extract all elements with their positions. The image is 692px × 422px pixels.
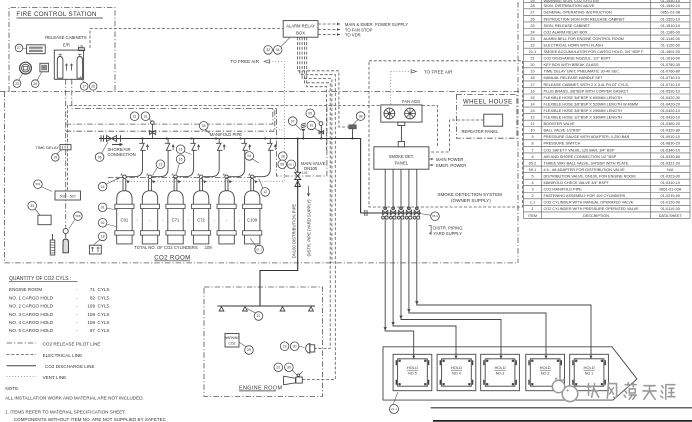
svg-text:TOTAL NO. OF CO2 CYLINDERS: TOTAL NO. OF CO2 CYLINDERS :109 xyxy=(134,245,212,250)
svg-text:N/A: N/A xyxy=(667,168,674,172)
svg-text:CO2 MANIFOLD PIPE: CO2 MANIFOLD PIPE xyxy=(544,188,583,192)
svg-text:33: 33 xyxy=(30,204,34,208)
svg-text:C71: C71 xyxy=(172,217,180,222)
svg-text:01-0120-00: 01-0120-00 xyxy=(661,201,680,205)
svg-text:MANUAL RELEASE HANDLE SET: MANUAL RELEASE HANDLE SET xyxy=(544,76,604,80)
svg-text:TO FREE AIR: TO FREE AIR xyxy=(230,59,259,64)
svg-text:CO2 RELEASE PILOT LINE: CO2 RELEASE PILOT LINE xyxy=(43,341,101,346)
svg-text:DISTR. PIPING: DISTR. PIPING xyxy=(433,226,462,231)
svg-text:AIR AND SHORE CONNECTION 1/2": AIR AND SHORE CONNECTION 1/2" BSP xyxy=(544,155,617,159)
svg-text:15: 15 xyxy=(179,147,183,151)
svg-text:508: 508 xyxy=(75,214,80,218)
svg-text:24: 24 xyxy=(530,30,534,34)
svg-text:NO. 3 CARGO HOLD: NO. 3 CARGO HOLD xyxy=(9,312,54,317)
svg-text:9: 9 xyxy=(531,135,533,139)
svg-text:INSTRUCTION SIGN FOR RELEASE C: INSTRUCTION SIGN FOR RELEASE CABINET xyxy=(544,17,626,21)
svg-text:25: 25 xyxy=(530,24,534,28)
svg-text:01-0360-20: 01-0360-20 xyxy=(661,122,680,126)
svg-text:PANEL: PANEL xyxy=(395,161,409,166)
svg-text:ELECTRICAL HORN WITH FLASH: ELECTRICAL HORN WITH FLASH xyxy=(544,43,604,47)
svg-text:09: 09 xyxy=(308,112,312,116)
svg-text:TO VDR: TO VDR xyxy=(345,33,361,38)
svg-text:01-0730-10: 01-0730-10 xyxy=(661,76,680,80)
svg-text:FASTENING ASSEMBLY FOR 109 CYL: FASTENING ASSEMBLY FOR 109 CYLINDERS xyxy=(544,194,626,198)
svg-text:30: 30 xyxy=(287,366,291,370)
svg-text:30: 30 xyxy=(293,344,297,348)
svg-text:CO2 CYLINDER WITH MANUAL OPERA: CO2 CYLINDER WITH MANUAL OPERATED VALVE xyxy=(544,201,634,205)
svg-text:HOLD: HOLD xyxy=(583,365,594,370)
svg-text:KEY BOX WITH BREAK GLASS: KEY BOX WITH BREAK GLASS xyxy=(544,63,599,67)
svg-text:14: 14 xyxy=(530,102,534,106)
svg-text:20: 20 xyxy=(530,63,534,67)
svg-text:01-1540-10: 01-1540-10 xyxy=(661,4,680,8)
svg-text:WHEEL HOUSE: WHEEL HOUSE xyxy=(463,100,513,106)
svg-text:01-0320-80: 01-0320-80 xyxy=(661,129,680,133)
svg-text:01-0420-30: 01-0420-30 xyxy=(661,96,680,100)
svg-text:GENERAL OPERATING INSTRUCTION: GENERAL OPERATING INSTRUCTION xyxy=(544,11,612,15)
svg-text:11: 11 xyxy=(133,114,137,118)
svg-text:22: 22 xyxy=(530,43,534,47)
svg-text:16: 16 xyxy=(179,157,183,161)
svg-text:05.2: 05.2 xyxy=(529,161,536,165)
svg-text:21: 21 xyxy=(530,57,534,61)
svg-text:05.3: 05.3 xyxy=(432,214,438,218)
svg-text:EMER. POWER: EMER. POWER xyxy=(436,163,466,168)
svg-text:DN100: DN100 xyxy=(304,166,318,171)
svg-text:FLEXIBLE HOSE 3/8"BSP X 600MM: FLEXIBLE HOSE 3/8"BSP X 600MM LENGTH xyxy=(544,96,623,100)
svg-text:27: 27 xyxy=(530,11,534,15)
svg-text:COMPONENTS WITHOUT ITEM NO.: COMPONENTS WITHOUT ITEM NO. ARE NOT SUPP… xyxy=(14,417,167,422)
svg-text:NO. 5 CARGO HOLD: NO. 5 CARGO HOLD xyxy=(9,328,54,333)
svg-text:3: 3 xyxy=(531,188,533,192)
svg-text:02: 02 xyxy=(101,221,105,225)
svg-text:TO FREE AIR: TO FREE AIR xyxy=(424,69,453,74)
svg-text:01-0219-00: 01-0219-00 xyxy=(661,194,680,198)
svg-text:01-1120-50: 01-1120-50 xyxy=(661,43,680,47)
svg-text:CYLS: CYLS xyxy=(98,295,110,300)
svg-text:01-1550-10: 01-1550-10 xyxy=(661,0,680,3)
svg-text:L/S: L/S xyxy=(302,171,308,175)
svg-text:01-0420-20: 01-0420-20 xyxy=(661,102,680,106)
svg-text:NO. 4 CARGO HOLD: NO. 4 CARGO HOLD xyxy=(9,320,54,325)
svg-text:20: 20 xyxy=(15,82,19,86)
svg-text:25: 25 xyxy=(91,85,95,89)
svg-text:12: 12 xyxy=(530,116,534,120)
svg-text:01-0760-80: 01-0760-80 xyxy=(661,70,680,74)
svg-text:5: 5 xyxy=(531,174,533,178)
svg-text:27: 27 xyxy=(17,46,21,50)
svg-text:17: 17 xyxy=(82,85,86,89)
svg-text:01-0410-10: 01-0410-10 xyxy=(661,116,680,120)
svg-text:ALL INSTALLATION WORK AND: ALL INSTALLATION WORK AND MATERIAL ARE N… xyxy=(5,396,144,401)
svg-text:501: 501 xyxy=(35,182,40,186)
svg-text:82: 82 xyxy=(90,295,96,300)
svg-text:18: 18 xyxy=(101,235,105,239)
svg-text:21.1: 21.1 xyxy=(391,407,397,411)
svg-text:ALARM RELAY: ALARM RELAY xyxy=(286,24,315,29)
svg-text:28: 28 xyxy=(281,154,285,158)
svg-text:HOLD: HOLD xyxy=(451,365,462,370)
svg-text:16: 16 xyxy=(530,89,534,93)
svg-text:SMOKE DETECTION SYSTEM: SMOKE DETECTION SYSTEM xyxy=(437,192,502,197)
svg-text:WARNING: WARNING xyxy=(224,336,240,340)
svg-text:21: 21 xyxy=(257,314,261,318)
svg-text:01-0530-10: 01-0530-10 xyxy=(661,89,680,93)
svg-text:01-0420-10: 01-0420-10 xyxy=(661,109,680,113)
svg-text:32: 32 xyxy=(266,48,270,52)
svg-text:NO. 2 CARGO HOLD: NO. 2 CARGO HOLD xyxy=(9,304,54,309)
svg-text:CO2 ROOM: CO2 ROOM xyxy=(154,254,191,261)
svg-text:109: 109 xyxy=(87,304,95,309)
svg-text:ITEM: ITEM xyxy=(528,214,537,218)
svg-text:1: 1 xyxy=(531,207,533,211)
svg-text:CYLS: CYLS xyxy=(98,287,110,292)
svg-text:CYLS: CYLS xyxy=(98,328,110,333)
svg-text:28: 28 xyxy=(530,4,534,8)
svg-text:DN100 DISTRIBUTION PIPE: DN100 DISTRIBUTION PIPE xyxy=(292,204,297,259)
svg-text:05.1: 05.1 xyxy=(288,162,294,166)
svg-text:RELEASE CABINETS: RELEASE CABINETS xyxy=(45,35,87,40)
svg-text:26: 26 xyxy=(530,17,534,21)
svg-text:11: 11 xyxy=(531,122,535,126)
svg-text:PRESSURE SWITCH: PRESSURE SWITCH xyxy=(544,142,581,146)
svg-text:19: 19 xyxy=(530,70,534,74)
svg-text:01-0321-20: 01-0321-20 xyxy=(661,161,680,165)
svg-text:HOLD: HOLD xyxy=(494,365,505,370)
svg-text:ENGINE ROOM: ENGINE ROOM xyxy=(9,287,42,292)
svg-text:4: 4 xyxy=(531,181,533,185)
svg-text:SMOKE DET.: SMOKE DET. xyxy=(389,154,414,159)
svg-text:19: 19 xyxy=(53,156,57,160)
svg-text:08: 08 xyxy=(359,114,363,118)
svg-text:NO. 1 CARGO HOLD: NO. 1 CARGO HOLD xyxy=(9,295,54,300)
svg-text:13: 13 xyxy=(530,109,534,113)
svg-text:DATA SHEET: DATA SHEET xyxy=(659,214,683,218)
svg-text:PLUG BRASS, 3/8"BSP WITH COPPE: PLUG BRASS, 3/8"BSP WITH COPPER GASKET xyxy=(544,89,630,93)
svg-text:01-1602-00: 01-1602-00 xyxy=(661,50,680,54)
svg-text:CYLS: CYLS xyxy=(98,304,110,309)
svg-text:23: 23 xyxy=(530,37,534,41)
svg-text:C109: C109 xyxy=(247,217,258,222)
svg-text:FLEXIBLE HOSE 3/8"BSP X 520MM: FLEXIBLE HOSE 3/8"BSP X 520MM LENGTH W.4… xyxy=(544,102,639,106)
svg-text:29: 29 xyxy=(530,0,534,3)
svg-text:31: 31 xyxy=(144,114,148,118)
svg-text:CONNECTION: CONNECTION xyxy=(108,152,136,157)
svg-text:6: 6 xyxy=(531,155,533,159)
svg-text:15: 15 xyxy=(530,96,534,100)
svg-text:CO2: CO2 xyxy=(229,342,236,346)
svg-text:03: 03 xyxy=(202,124,206,128)
svg-text:REPEATER PANEL: REPEATER PANEL xyxy=(462,129,500,134)
svg-text:01-0780-30: 01-0780-30 xyxy=(661,63,680,67)
svg-text:NO.3: NO.3 xyxy=(496,372,505,376)
svg-text:0851-01-03A: 0851-01-03A xyxy=(659,188,681,192)
svg-text:BOOSTER VALVE: BOOSTER VALVE xyxy=(544,122,576,126)
svg-text:QUANTITY OF CO2 CYLS :: QUANTITY OF CO2 CYLS : xyxy=(9,276,71,282)
svg-text:22: 22 xyxy=(276,366,280,370)
svg-text:CO2 ALARM RELAY BOX: CO2 ALARM RELAY BOX xyxy=(544,30,588,34)
svg-text:FAN AGG.: FAN AGG. xyxy=(402,99,422,104)
svg-text:MANIFOLD PIPE: MANIFOLD PIPE xyxy=(210,132,243,137)
svg-text:8: 8 xyxy=(531,142,533,146)
svg-text:HOLD: HOLD xyxy=(407,365,418,370)
svg-text:CO2 SAFETY VALVE, 120 BAR, 3/4: CO2 SAFETY VALVE, 120 BAR, 3/4" BSP xyxy=(544,148,615,152)
svg-text:502 ~ 507: 502 ~ 507 xyxy=(60,194,76,198)
svg-text:108: 108 xyxy=(87,312,95,317)
svg-text:BOX: BOX xyxy=(296,30,305,35)
svg-text:MAIN POWER: MAIN POWER xyxy=(436,157,463,162)
svg-text:HOLD: HOLD xyxy=(540,365,551,370)
svg-text:ALARM BELL FOR ENGINE CONTROL: ALARM BELL FOR ENGINE CONTROL ROOM xyxy=(544,37,624,41)
svg-text:FIRE CONTROL STATION: FIRE CONTROL STATION xyxy=(16,11,96,18)
svg-text:01-0710-10: 01-0710-10 xyxy=(661,83,680,87)
svg-text:CYLS: CYLS xyxy=(98,320,110,325)
svg-text:01-0110-00: 01-0110-00 xyxy=(661,207,680,211)
svg-text:PRESSURE GAUGE WITH ADAPTER, 0: PRESSURE GAUGE WITH ADAPTER, 0-250 BAR xyxy=(544,135,630,139)
svg-text:01: 01 xyxy=(101,206,105,210)
svg-text:04: 04 xyxy=(247,154,251,158)
svg-text:# 6 - #8 ADAPTER FOR DISTRIBUT: # 6 - #8 ADAPTER FOR DISTRIBUTION VALVE xyxy=(544,168,626,172)
svg-text:WARNING SIGN, CO2 SYSTEM: WARNING SIGN, CO2 SYSTEM xyxy=(544,0,599,3)
svg-text:13: 13 xyxy=(159,162,163,166)
svg-text:1.1: 1.1 xyxy=(530,201,535,205)
svg-text:1. ITEMS REFER TO MATERIAL: 1. ITEMS REFER TO MATERIAL SPECIFICATION… xyxy=(5,409,126,414)
svg-text:01-0323-00: 01-0323-00 xyxy=(661,174,680,178)
svg-text:01-1520-10: 01-1520-10 xyxy=(661,17,680,21)
svg-text:21.1: 21.1 xyxy=(529,50,536,54)
svg-text:01-1180-00: 01-1180-00 xyxy=(661,30,680,34)
svg-text:NO.1: NO.1 xyxy=(585,372,594,376)
svg-text:CO2 DISCHARGE NOZZLE, 1/2" BSP: CO2 DISCHARGE NOZZLE, 1/2" BSPT xyxy=(544,57,612,61)
svg-text:TIME DELAY UNIT, PNEUMATIC 30-: TIME DELAY UNIT, PNEUMATIC 30-40 SEC xyxy=(544,70,620,74)
svg-text:NO.4: NO.4 xyxy=(452,372,461,376)
svg-text:26: 26 xyxy=(33,82,37,86)
svg-text:14: 14 xyxy=(101,185,105,189)
svg-text:06: 06 xyxy=(98,155,102,159)
svg-text:THREE WAY BALL VALVE, 3/4"BSP: THREE WAY BALL VALVE, 3/4"BSP WITH PLATE xyxy=(544,161,629,165)
svg-text:BALL VALVE 1/2"BSP: BALL VALVE 1/2"BSP xyxy=(544,129,582,133)
svg-text:23: 23 xyxy=(283,344,287,348)
svg-text:RELEASE CABINET, WITH 2 X 3.4L: RELEASE CABINET, WITH 2 X 3.4L PILOT CYL… xyxy=(544,83,629,87)
svg-text:CYLS: CYLS xyxy=(98,312,110,317)
svg-text:29: 29 xyxy=(247,348,251,352)
svg-text:01-0330-80: 01-0330-80 xyxy=(661,155,680,159)
svg-text:10: 10 xyxy=(309,124,313,128)
svg-text:NO.2: NO.2 xyxy=(541,372,550,376)
svg-text:SMOKE ACCUMULATOR FOR CARGO HO: SMOKE ACCUMULATOR FOR CARGO HOLD, 3/4" B… xyxy=(544,50,645,54)
svg-text:01.1: 01.1 xyxy=(256,248,262,252)
svg-text:2: 2 xyxy=(531,194,533,198)
svg-text:ELECTRICAL LINE: ELECTRICAL LINE xyxy=(43,353,83,358)
svg-text:MAIN & EMER. POWER SUPPLY: MAIN & EMER. POWER SUPPLY xyxy=(345,22,408,27)
svg-text:TIME DELAY: TIME DELAY xyxy=(35,145,59,150)
svg-text:108: 108 xyxy=(87,320,95,325)
svg-text:18: 18 xyxy=(530,76,534,80)
svg-text:C72: C72 xyxy=(197,217,205,222)
svg-text:CO2 DISCHARGE LINE: CO2 DISCHARGE LINE xyxy=(45,364,95,369)
svg-text:DISTRIBUTION VALVE, DN100, FOR: DISTRIBUTION VALVE, DN100, FOR ENGINE RO… xyxy=(544,174,636,178)
svg-text:12: 12 xyxy=(263,190,267,194)
svg-text:CO2 CYLINDER WITH PRESSURE OPE: CO2 CYLINDER WITH PRESSURE OPERATED VALV… xyxy=(544,207,640,211)
svg-text:01-1010-00: 01-1010-00 xyxy=(661,57,680,61)
svg-text:71: 71 xyxy=(90,287,96,292)
svg-text:SIGN, DISTRIBUTION VALVE: SIGN, DISTRIBUTION VALVE xyxy=(544,4,595,8)
svg-text:05.1: 05.1 xyxy=(529,168,536,172)
svg-text:NOTE:: NOTE: xyxy=(5,386,19,391)
svg-text:17: 17 xyxy=(530,83,534,87)
svg-text:DISTR. PIPE (YARD SUPPLY): DISTR. PIPE (YARD SUPPLY) xyxy=(307,199,312,257)
svg-text:07: 07 xyxy=(291,119,295,123)
svg-text:SIGN, RELEASE CABINET: SIGN, RELEASE CABINET xyxy=(544,24,591,28)
svg-text:(OWNER SUPPLY): (OWNER SUPPLY) xyxy=(451,198,491,203)
svg-text:C01: C01 xyxy=(121,217,129,222)
svg-text:0851-01-08: 0851-01-08 xyxy=(661,11,680,15)
svg-text:10: 10 xyxy=(530,129,534,133)
svg-text:01-1140-00: 01-1140-00 xyxy=(661,37,680,41)
svg-text:FLEXIBLE HOSE 3/8"BSP X 290MM: FLEXIBLE HOSE 3/8"BSP X 290MM LENGTH xyxy=(544,109,623,113)
svg-text:E/R: E/R xyxy=(63,43,70,48)
svg-text:01-0830-20: 01-0830-20 xyxy=(661,142,680,146)
svg-text:01-0910-10: 01-0910-10 xyxy=(661,135,680,139)
svg-text:SHORE/AIR: SHORE/AIR xyxy=(108,147,131,152)
svg-text:7: 7 xyxy=(531,148,533,152)
svg-text:NO.5: NO.5 xyxy=(408,372,417,376)
svg-text:DESCRIPTION: DESCRIPTION xyxy=(583,214,609,218)
svg-text:97: 97 xyxy=(90,328,96,333)
svg-text:01-1510-10: 01-1510-10 xyxy=(661,24,680,28)
svg-text:34: 34 xyxy=(276,48,280,52)
svg-text:01-0340-10: 01-0340-10 xyxy=(661,148,680,152)
svg-text:YARD SUPPLY: YARD SUPPLY xyxy=(433,231,462,236)
svg-text:01-0310-10: 01-0310-10 xyxy=(661,181,680,185)
svg-text:FLEXIBLE HOSE 1/2"BSP X 330MM: FLEXIBLE HOSE 1/2"BSP X 330MM LENGTH xyxy=(544,116,623,120)
svg-text:05: 05 xyxy=(280,163,284,167)
svg-text:VENT LINE: VENT LINE xyxy=(43,375,67,380)
svg-text:MANIFOLD CHECK VALVE 3/4" BSPT: MANIFOLD CHECK VALVE 3/4" BSPT xyxy=(544,181,610,185)
